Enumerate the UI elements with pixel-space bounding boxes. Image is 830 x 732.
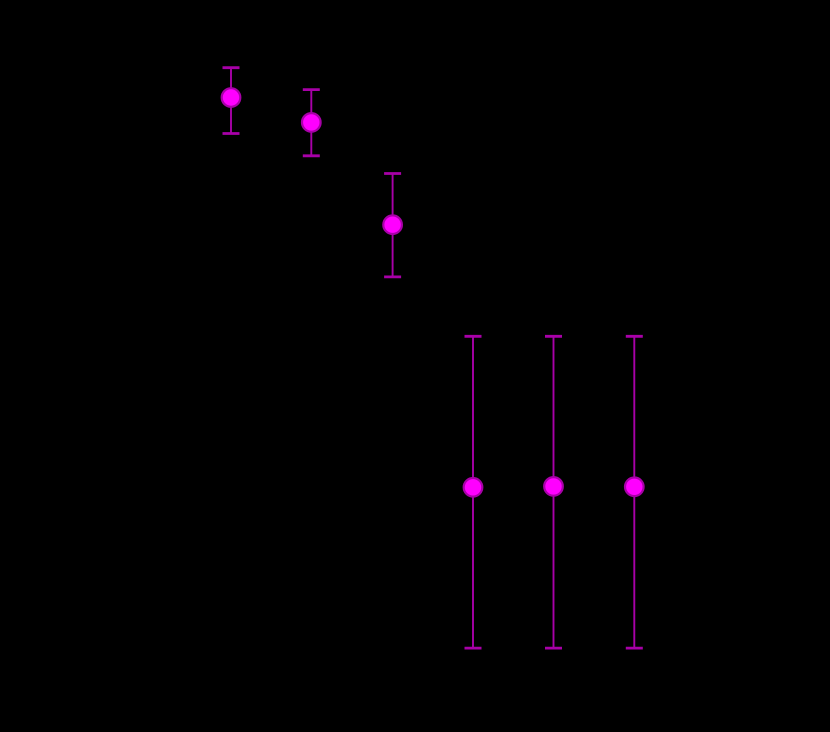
caps point 2 [303,88,320,91]
marker 4 [464,478,483,497]
caps point 1 [223,66,240,69]
marker 6 [625,478,644,497]
errorbar line 2 [310,90,312,156]
errorbar line 1 [230,68,232,134]
caps point 4 [465,335,482,338]
caps point 3 [384,172,401,175]
marker 5 [544,477,563,496]
marker 3 [383,215,402,234]
marker 2 [302,113,321,132]
caps point 5 [545,335,562,338]
caps point 6 [626,335,643,338]
errorbar line 4 [472,336,474,648]
errorbar line 6 [633,336,635,648]
errorbar line 3 [392,174,394,277]
marker 1 [222,88,241,107]
errorbar line 5 [553,336,555,648]
